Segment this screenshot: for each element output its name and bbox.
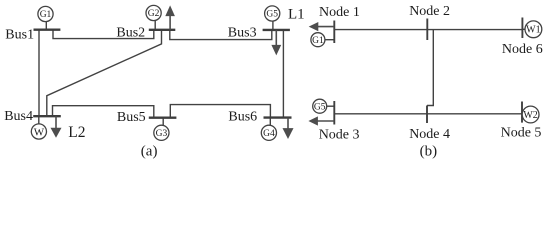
svg-text:Node 1: Node 1 <box>319 5 360 20</box>
svg-text:Bus5: Bus5 <box>117 110 146 125</box>
svg-text:G5: G5 <box>266 10 278 20</box>
svg-text:Bus3: Bus3 <box>228 26 257 41</box>
svg-text:(a): (a) <box>141 144 158 160</box>
svg-text:G4: G4 <box>263 129 275 139</box>
svg-text:Bus1: Bus1 <box>5 28 34 43</box>
svg-text:W1: W1 <box>526 25 540 36</box>
svg-text:G1: G1 <box>40 10 52 20</box>
svg-text:L1: L1 <box>288 7 305 23</box>
svg-text:Node 4: Node 4 <box>409 127 450 142</box>
svg-text:G5: G5 <box>314 102 326 112</box>
svg-text:Bus2: Bus2 <box>116 26 145 41</box>
svg-text:G1: G1 <box>312 36 324 46</box>
svg-text:G2: G2 <box>148 9 160 19</box>
svg-text:Bus6: Bus6 <box>228 110 257 125</box>
svg-text:Node 2: Node 2 <box>409 4 450 19</box>
svg-text:Node 3: Node 3 <box>319 128 360 143</box>
svg-text:Bus4: Bus4 <box>4 109 33 124</box>
svg-text:(b): (b) <box>420 144 438 160</box>
svg-text:W: W <box>34 126 45 138</box>
svg-text:Node 5: Node 5 <box>501 125 542 140</box>
svg-text:G3: G3 <box>156 129 168 139</box>
svg-text:L2: L2 <box>68 124 85 141</box>
svg-text:Node 6: Node 6 <box>502 42 543 57</box>
svg-text:W2: W2 <box>523 110 537 121</box>
